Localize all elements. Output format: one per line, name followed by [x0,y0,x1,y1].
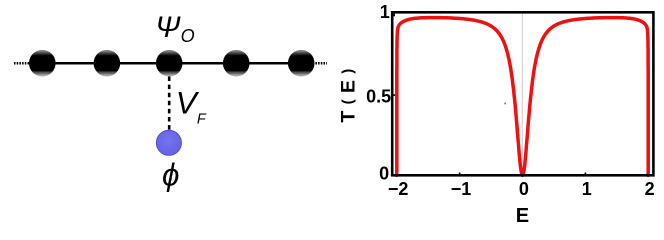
side impurity phi (blue) [156,130,181,155]
svg-text:−2: −2 [388,179,409,199]
left dotted lead wire [14,62,29,65]
chain site 2 [94,50,121,77]
chain wire [40,62,303,65]
x tick at E=-2 (bottom frame) [396,173,398,176]
x tick at E=0 (bottom frame) [522,173,524,176]
y tick at T=0.5 (left frame) [392,94,395,96]
chain site 4 [288,50,315,77]
svg-text:E: E [516,205,529,226]
x tick at E=1 (bottom frame) [584,173,586,176]
svg-text:T(E): T(E) [337,62,359,122]
coupling V_F dashed wire [168,77,171,132]
plot frame [392,12,653,175]
svg-text:VF: VF [176,85,207,128]
x tick at E=2 (bottom frame) [647,173,649,176]
svg-text:ϕ: ϕ [162,158,179,193]
chain site 1 [29,50,56,77]
svg-text:2: 2 [645,179,655,199]
svg-text:0.5: 0.5 [366,86,391,106]
stray speck [504,103,506,105]
chain site 3 [223,50,250,77]
svg-text:ΨO: ΨO [155,11,194,46]
y tick at T=1 (left frame corner nub) [393,14,395,17]
chain site 0 (psi_O site) [156,50,183,77]
right dotted lead wire [315,62,327,65]
y tick at T=0 (left frame) [392,174,395,176]
x tick at E=-1 (bottom frame) [459,173,461,176]
transmission curve T(E) [397,18,648,176]
faint gridline at E=0 [521,14,523,175]
svg-text:−1: −1 [451,179,472,199]
svg-text:1: 1 [380,2,390,22]
svg-text:0: 0 [519,179,529,199]
svg-text:1: 1 [582,179,592,199]
